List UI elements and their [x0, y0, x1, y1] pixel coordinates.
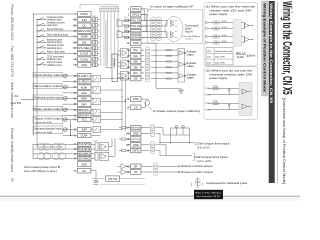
top dashed boundary of driver	[80, 4, 117, 6]
input pin box CL pin 30	[78, 23, 92, 28]
svg-text:Wiring to the Connector, CN X5: Wiring to the Connector, CN X5	[280, 1, 295, 95]
line driver B-phase output	[121, 60, 129, 69]
CN X5 pin box OZ- pin 24	[131, 76, 142, 81]
divider block	[112, 54, 118, 82]
receiver triangle Z-phase output	[179, 73, 184, 78]
pin box SIGNH1 pin 46	[78, 152, 92, 156]
input pull-up rail	[101, 6, 119, 8]
svg-text:“pulse”: “pulse”	[185, 27, 193, 30]
pulse wires into box	[141, 19, 167, 21]
output label box Servo-Alarm output	[33, 84, 63, 89]
note1 branch 1 internal wires + transistor	[242, 22, 245, 24]
twisted pair B-phase output	[145, 58, 150, 62]
sidebar black tab: Wiring Example to the Connector CN X5	[269, 1, 275, 183]
output pin box ALM+ pin 37	[78, 85, 92, 90]
pull-up resistor line 4	[110, 7, 112, 66]
input pin box CCWL pin 9	[78, 57, 92, 62]
pin box ZSP pin 12	[78, 128, 92, 132]
output label box Brake release output	[33, 106, 63, 111]
CN X5 pin box OA- pin 22	[131, 54, 142, 59]
return wire Positioning complete output	[63, 103, 78, 105]
pull-up resistor line 3	[107, 7, 109, 66]
open collector interface dashed box	[148, 10, 203, 44]
svg-text:12 to 24V: 12 to 24V	[11, 102, 22, 105]
CCW torque limit wire + label	[160, 142, 194, 144]
internal receivers pulse B	[91, 143, 95, 145]
wire and switch for GAIN	[37, 36, 78, 38]
output optocoupler Servo-Ready output	[93, 76, 101, 82]
output pin box S-RDY- pin 34	[78, 79, 92, 84]
CN X5 pin box GND pin 15	[131, 131, 142, 136]
output optocoupler Positioning complete output	[93, 98, 101, 104]
CN X5 pin box OB- pin 49	[131, 65, 142, 70]
svg-text:Alarm clear input: Alarm clear input	[47, 51, 65, 54]
wire + relay coil Positioning complete output	[63, 98, 78, 100]
wire + relay coil Torque in-limit output	[63, 119, 78, 121]
optocoupler for input A-CLR	[93, 52, 95, 56]
wires A-phase output	[141, 49, 144, 51]
svg-text:Divider: Divider	[112, 59, 116, 68]
wire and switch for DIV	[37, 41, 78, 43]
buffer SP	[121, 164, 127, 169]
twisted pairs pulse B	[37, 143, 45, 150]
input pin box COM+ pin 7	[78, 12, 92, 17]
output label box Positioning complete output	[33, 95, 63, 100]
svg-text:CCWTL/TRQR: CCWTL/TRQR	[131, 139, 141, 141]
output common vertical wire	[121, 77, 123, 127]
CN X5 pin box PULS2 pin 4	[131, 24, 142, 29]
svg-text:): )	[202, 182, 203, 186]
wire and switch for A-CLR	[37, 53, 78, 55]
svg-text:VDC: VDC	[207, 51, 212, 53]
termination marks A-phase output	[166, 49, 172, 50]
output common vertical wire 2	[125, 81, 127, 132]
note box (2)	[204, 67, 258, 120]
optocoupler for input DIV	[93, 40, 95, 44]
CN X5 pin box OB+ pin 48	[131, 59, 142, 64]
open collector title	[150, 4, 194, 8]
note1 circuit shaded CN X5 boundary band	[233, 20, 242, 47]
svg-text:SIGNH2: SIGNH2	[78, 159, 91, 161]
pull-up resistor line 2	[103, 7, 105, 66]
svg-text:COM+: COM+	[80, 12, 89, 16]
CN X5 pin box IM pin 42	[131, 170, 142, 175]
note1 branch 2 twisted pairs	[213, 35, 217, 38]
svg-text:(0 to +10V): (0 to +10V)	[197, 147, 210, 150]
CN X5 pin box OZ+ pin 23	[131, 71, 142, 76]
wire out of OPC2	[141, 14, 148, 16]
input pin box SRV-ON pin 29	[78, 29, 92, 34]
input pin box VS-SEL pin 26	[78, 46, 92, 51]
internal RC for GND	[126, 132, 131, 134]
svg-text:SIGN2: SIGN2	[222, 41, 227, 43]
CN X5 bottom dash-dot boundary	[92, 177, 105, 179]
svg-text:Servo-ON input: Servo-ON input	[47, 28, 64, 31]
pin box PULSH1 pin 44	[78, 142, 92, 146]
output pin box S-RDY+ pin 35	[78, 74, 92, 79]
pull-up resistor line 5	[114, 7, 116, 66]
svg-text:(-10 to +10V): (-10 to +10V)	[197, 160, 212, 163]
wire out of SIGN1	[141, 31, 148, 33]
optocoupler for input SRV-ON	[93, 29, 95, 33]
svg-text:DIV: DIV	[82, 40, 87, 44]
output optocoupler Torque in-limit output	[93, 116, 101, 122]
note2 circuit shaded driver block	[239, 83, 252, 116]
note1 branch 1 wires	[208, 22, 233, 24]
svg-text:Command pulse: Command pulse	[47, 17, 64, 19]
wire and switch for CL	[37, 24, 78, 26]
svg-text:Servo-Ready output: Servo-Ready output	[34, 74, 62, 77]
svg-text:PULSH2: PULSH2	[78, 149, 91, 151]
svg-text:24V: 24V	[207, 62, 211, 64]
wire out of OPC1	[141, 8, 148, 10]
internal RC for CWTL	[126, 150, 131, 152]
input pin box GAIN pin 27	[78, 34, 92, 39]
wire PULSH1	[33, 143, 78, 145]
CW torque limit wires	[141, 144, 150, 146]
opto SIGN	[166, 32, 168, 38]
svg-text:Email: info@clrwtr.com: Email: info@clrwtr.com	[10, 128, 14, 172]
CN X5 pin box SP pin 43	[131, 164, 142, 169]
input pin box INH pin 33	[78, 17, 92, 22]
svg-text:PULS2: PULS2	[222, 27, 227, 29]
pin box SIGNH2 pin 47	[78, 157, 92, 161]
note2 branch 2	[208, 103, 239, 105]
svg-text:Z-phase output (open collector: Z-phase output (open collector)	[153, 110, 200, 113]
CN X5 pin box GND pin 17	[131, 143, 142, 148]
svg-text:OPC1: OPC1	[205, 88, 210, 90]
FG earth ground	[91, 170, 96, 172]
optocoupler for input INH	[93, 18, 95, 22]
wire out of PULS2	[141, 25, 148, 27]
bus bottom wire	[37, 146, 63, 148]
pin box COM- pin 41	[78, 134, 92, 138]
svg-text:Wiring Example to the Connecto: Wiring Example to the Connector, CN X5	[269, 3, 273, 103]
output optocoupler Servo-Alarm output	[93, 87, 101, 93]
lower dashed line	[92, 184, 145, 186]
Vcc supply bus lines	[33, 14, 35, 136]
svg-text:represents twisted pair.: represents twisted pair.	[206, 181, 248, 185]
internal RC for GND	[126, 144, 131, 146]
signal ground symbol	[178, 89, 184, 91]
note1 branch 2 input arrows	[206, 35, 209, 38]
svg-text:R+220: R+220	[237, 57, 245, 59]
wire + twisted pair IM	[141, 171, 153, 173]
return wire Brake release output	[63, 114, 78, 116]
Z-phase open collector label	[149, 107, 152, 110]
wire + relay coil Servo-Ready output	[63, 75, 78, 77]
optocoupler for input VS-SEL	[93, 46, 95, 50]
input pin box A-CLR pin 31	[78, 51, 92, 56]
return drop Torque in-limit output	[70, 120, 72, 126]
line driver Z-phase output	[121, 71, 129, 80]
twisted pair A-phase output	[145, 47, 150, 51]
pull-up resistor line 6	[117, 7, 119, 66]
output pin box INP- pin 38	[78, 102, 92, 107]
svg-text:Positioning complete output: Positioning complete output	[34, 97, 62, 100]
svg-text:INH: INH	[82, 18, 87, 22]
svg-text:PULS2: PULS2	[205, 94, 211, 96]
CN X5 pin box CWTL pin 18	[131, 148, 142, 153]
svg-text:CN X5: CN X5	[108, 177, 117, 181]
output pin box BRKOFF+ pin 11	[78, 108, 92, 113]
svg-text:12V: 12V	[207, 57, 211, 59]
wire SIGNH1	[33, 153, 78, 155]
pin box GND	[78, 162, 92, 167]
output pin box INP+ pin 39	[78, 96, 92, 101]
wires Z-phase output	[141, 72, 144, 74]
wire COM+ to bus	[34, 13, 78, 15]
wire and switch for VS-SEL	[37, 47, 78, 49]
internal RC for SPR/TRQR	[126, 127, 131, 129]
svg-text:A-CLR: A-CLR	[80, 52, 88, 56]
optocoupler for input GAIN	[93, 35, 95, 39]
svg-text:Gain switching input: Gain switching input	[47, 34, 69, 37]
svg-text:Brake release output: Brake release output	[34, 108, 62, 111]
note1 branch 2 wires	[208, 36, 233, 38]
svg-text:Phone: 800.894.0412 - Fax: 8: Phone: 800.894.0412 - Fax: 888.723.4773 …	[10, 4, 14, 118]
wire and switch for CCWL	[37, 58, 78, 60]
twisted pair Z-phase output	[145, 70, 150, 74]
internal RC for CCWTL/TRQR	[126, 138, 131, 140]
termination marks Z-phase output	[166, 72, 172, 73]
svg-text:“input A”: “input A”	[185, 31, 194, 34]
input pin box DIV pin 28	[78, 40, 92, 45]
optocoupler for input CWL	[93, 63, 95, 67]
wire to COM-	[63, 135, 78, 137]
svg-text:(Use with 2Mpps or less.): (Use with 2Mpps or less.)	[24, 170, 57, 173]
torque input twisted pairs CCW	[141, 127, 150, 129]
wire out of SIGN2	[141, 36, 148, 38]
pin box FG 50	[78, 168, 92, 173]
svg-text:power supply.: power supply.	[210, 12, 228, 16]
CN X5 pin box SIGN2 pin 6	[131, 35, 142, 40]
CN X5 pin box OA+ pin 21	[131, 48, 142, 53]
svg-text:SRV-ON: SRV-ON	[78, 29, 90, 33]
return wire Servo-Alarm output	[63, 92, 78, 94]
svg-text:Torque in-limit output: Torque in-limit output	[34, 118, 62, 121]
CN X5 pin box PULS1 pin 3	[131, 18, 142, 23]
wire and switch for CWL	[37, 64, 78, 66]
buffer IM	[121, 170, 127, 175]
note1 branch 1 twisted pairs	[213, 21, 217, 24]
output optocoupler Zero-speed detection output	[93, 126, 101, 132]
svg-text:CCWL: CCWL	[80, 57, 89, 61]
pin box GND 25	[131, 97, 142, 102]
optocoupler for input CCWL	[93, 57, 95, 61]
svg-text:4.7kΩ: 4.7kΩ	[213, 101, 218, 103]
CN X5 label box	[106, 176, 120, 181]
note1 table	[206, 48, 233, 65]
svg-text:PULSH1: PULSH1	[78, 144, 91, 146]
output pin box ALM- pin 36	[78, 91, 92, 96]
CN X5 pin box SPR/TRQR pin 14	[131, 125, 142, 130]
pin box CZ 19	[131, 105, 142, 110]
svg-text:power supply.: power supply.	[210, 76, 228, 80]
wire PULSH2	[33, 148, 78, 150]
divider input wires	[106, 67, 112, 69]
CZ open collector transistor	[141, 106, 146, 108]
svg-text:GAIN: GAIN	[81, 35, 88, 39]
svg-text:Servo-Alarm output: Servo-Alarm output	[34, 85, 62, 88]
svg-text:2kΩ 1/2W: 2kΩ 1/2W	[215, 62, 226, 64]
CN X5 pin box GND pin 13	[131, 41, 142, 46]
wire + relay coil Zero-speed detection output	[63, 129, 78, 131]
CN X5 pin box SIGN1 pin 5	[131, 29, 142, 34]
wire out of GND	[141, 42, 148, 44]
pin box TLC pin 40	[78, 118, 92, 122]
CN X5 pin box OPC2 pin 2	[131, 12, 142, 17]
output label box Torque in-limit output	[33, 116, 63, 124]
svg-text:CL: CL	[82, 23, 86, 27]
sidebar separator rule	[276, 2, 278, 183]
svg-text:Zero-speed detection output: Zero-speed detection output	[34, 128, 62, 131]
termination marks B-phase output	[166, 61, 172, 62]
return wire Servo-Ready output	[63, 81, 78, 83]
svg-text:52: 52	[10, 178, 14, 182]
wire and switch for SRV-ON	[37, 30, 78, 32]
CN X5 pin box OPC1 pin 1	[131, 7, 142, 12]
torque limit network	[171, 127, 190, 129]
note1 branch 2 internal wires + transistor	[242, 36, 245, 38]
svg-text:OPC2: OPC2	[205, 103, 210, 105]
output optocoupler Brake release output	[93, 109, 101, 115]
receiver triangle B-phase output	[179, 62, 184, 67]
note1 branch 1 input arrows	[206, 21, 209, 24]
wires B-phase output	[141, 61, 144, 63]
wire COM- to opto common	[91, 135, 101, 137]
opto PULS	[166, 20, 168, 26]
note2 branch 1	[208, 88, 239, 90]
svg-text:SIGN1: SIGN1	[222, 35, 227, 37]
optocoupler for input CL	[93, 23, 95, 27]
return drop Zero-speed detection output	[70, 130, 72, 136]
differential receiver block	[178, 49, 185, 83]
receiver triangle A-phase output	[179, 51, 184, 56]
TLC/ZSP return wire to COM-	[70, 126, 72, 136]
left terminal bus for pulse B	[32, 144, 34, 158]
pin box PULSH2 pin 45	[78, 147, 92, 151]
title leader line	[147, 8, 150, 12]
note box (1)	[204, 3, 258, 66]
input pin box CWL pin 8	[78, 63, 92, 68]
OPC routing jogs	[141, 8, 144, 10]
wire + relay coil Servo-Alarm output	[63, 86, 78, 88]
wire + relay coil Brake release output	[63, 109, 78, 111]
output label box Servo-Ready output	[33, 72, 63, 77]
internal pulse input resistors/optos	[124, 19, 131, 21]
wire out of PULS1	[141, 19, 148, 21]
sidebar grey tab: Wiring Example of Position Control Mode	[262, 1, 268, 96]
svg-text:[Connection and Setup of Posit: [Connection and Setup of Position Contro…	[282, 98, 286, 184]
footer black box	[194, 190, 223, 199]
output pin box BRKOFF- pin 10	[78, 113, 92, 118]
svg-text:PULS1: PULS1	[222, 21, 227, 23]
wire and switch for INH	[37, 19, 78, 21]
wire SIGNH2	[33, 158, 78, 160]
svg-text:VS-SEL: VS-SEL	[78, 46, 91, 50]
svg-text:1kΩ 1/2W: 1kΩ 1/2W	[215, 57, 226, 59]
opto group oval	[165, 16, 183, 41]
svg-text:4.7kΩ: 4.7kΩ	[213, 86, 218, 88]
line driver A-phase output	[121, 49, 129, 58]
svg-text:Wiring Example of Position Con: Wiring Example of Position Control Mode	[262, 3, 266, 92]
svg-text:SIGN2: SIGN2	[205, 109, 210, 111]
svg-text:CWL: CWL	[81, 63, 88, 67]
svg-text:“Command”: “Command”	[185, 24, 200, 27]
GND wire to signal ground	[148, 42, 157, 44]
wire + twisted pair SP	[141, 165, 153, 167]
CN X5 pin box CCWTL/TRQR pin 16	[131, 137, 142, 142]
svg-text:SIGNH1: SIGNH1	[78, 154, 91, 156]
pull-up resistor line 1	[100, 7, 102, 66]
twisted pair barrels	[151, 17, 156, 21]
svg-text:SPR/TRQR: SPR/TRQR	[131, 128, 141, 130]
page bottom edge	[0, 194, 300, 198]
output label box Zero-speed detection output	[33, 126, 63, 134]
